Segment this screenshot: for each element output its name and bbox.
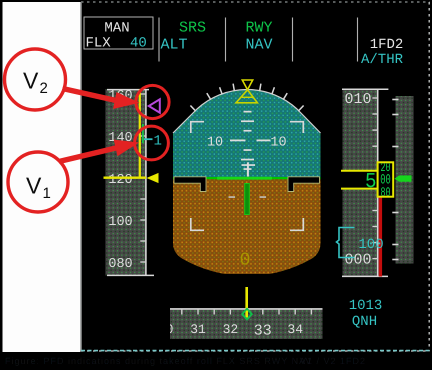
svg-text:31: 31 [190, 322, 206, 337]
svg-text:SRS: SRS [179, 20, 206, 37]
pitch ladder marks [241, 111, 254, 170]
svg-text:010: 010 [344, 91, 371, 108]
FD pitch bar [217, 177, 272, 180]
speed trend yellow line [139, 90, 141, 178]
FMA column1 box [84, 17, 153, 49]
FMA separator 3 [292, 18, 294, 62]
yellow heading lubber line [245, 287, 248, 318]
svg-text:Figure: PFD indications during: Figure: PFD indications during takeoff r… [5, 356, 312, 366]
FMA separator 1 [158, 18, 160, 62]
ball top outline arc [173, 90, 321, 133]
svg-text:MAN: MAN [104, 21, 129, 37]
white document area [3, 2, 81, 352]
V1 red arrow [59, 148, 118, 162]
V1 annotation circle [8, 152, 68, 212]
VS ticks [392, 100, 398, 260]
PFD black screen area [81, 2, 431, 352]
drum digits [380, 160, 391, 200]
svg-text:34: 34 [287, 322, 303, 337]
fixed yellow bank index triangle [242, 80, 252, 90]
speed tape vertical line [145, 89, 147, 276]
white cross above horizon [247, 162, 249, 176]
svg-text:120: 120 [108, 173, 132, 188]
svg-text:1: 1 [43, 185, 51, 202]
5 deg down pitch dashes [229, 196, 236, 198]
altitude tape vertical line [377, 89, 379, 277]
altitude drum box [378, 162, 394, 196]
red ground ribbon [379, 197, 382, 277]
dashed selection border around PFD [81, 1, 430, 3]
svg-text:000: 000 [344, 251, 371, 268]
FMA separator 4 [357, 18, 359, 62]
svg-text:080: 080 [108, 257, 132, 272]
svg-text:A/THR: A/THR [361, 52, 404, 68]
lower left attitude bracket [191, 218, 204, 230]
bank ticks [190, 84, 303, 112]
altitude tape bottom cap [342, 275, 388, 277]
upper left attitude bracket [191, 122, 204, 133]
green horizon line [173, 177, 321, 179]
svg-text:1FD2: 1FD2 [370, 37, 404, 53]
V2 red arrow [63, 89, 117, 101]
svg-text:ALT: ALT [161, 37, 188, 54]
FMA separator 2 [225, 18, 227, 62]
speed tape background [106, 89, 147, 276]
svg-text:5: 5 [365, 171, 377, 194]
altitude ticks [372, 98, 377, 259]
V1 cyan tick [144, 138, 153, 140]
svg-text:1: 1 [154, 134, 162, 150]
cyan tinted bottom marquee line [81, 350, 430, 352]
VS green needle [395, 175, 412, 181]
speed reference yellow line [104, 176, 147, 178]
heading ticks [182, 309, 312, 315]
altitude window yellow lines [341, 170, 378, 172]
speed tape ticks [140, 94, 146, 262]
svg-text:NAV: NAV [245, 37, 272, 54]
svg-text:V: V [26, 173, 42, 199]
svg-text:100: 100 [358, 237, 383, 253]
speed reference yellow pointer [147, 173, 159, 183]
attitude ball sky [173, 85, 321, 274]
svg-text:QNH: QNH [352, 314, 377, 330]
speed tape bottom cap [107, 274, 154, 276]
pitch 10 deg line [230, 140, 271, 142]
red highlight circle around V1 mark [135, 126, 169, 160]
svg-text:RWY: RWY [245, 20, 272, 37]
svg-text:100: 100 [108, 215, 132, 230]
red highlight circle around V2 triangle [136, 85, 169, 118]
altitude tape top cap [342, 88, 388, 90]
svg-text:2: 2 [40, 80, 48, 97]
bank pointer triangle [236, 90, 257, 103]
V2 annotation circle [5, 49, 66, 110]
vertical speed scale [396, 96, 414, 264]
green segment on speed tape [142, 124, 144, 143]
svg-text:V1 / V2 1FD2: V1 / V2 1FD2 [300, 356, 366, 366]
heading tape top line [170, 308, 323, 310]
FD yaw bar [245, 184, 250, 215]
heading tape background [170, 309, 323, 340]
svg-text:32: 32 [223, 322, 239, 337]
right wing symbol [288, 177, 320, 192]
svg-text:FLX: FLX [86, 36, 112, 52]
svg-text:10: 10 [270, 135, 286, 150]
green track diamond [242, 309, 252, 320]
gray left edge of PFD image [80, 2, 82, 351]
svg-text:0: 0 [240, 251, 251, 271]
svg-text:40: 40 [130, 36, 147, 52]
upper right attitude bracket [290, 122, 303, 133]
svg-text:V: V [23, 68, 39, 94]
lower right attitude bracket [290, 218, 303, 230]
altitude tape background [343, 89, 378, 277]
V2 magenta triangle [149, 99, 160, 112]
cyan brace [337, 228, 355, 258]
altitude window black band [341, 172, 378, 189]
left wing symbol [174, 177, 206, 192]
svg-text:10: 10 [207, 135, 223, 150]
svg-text:1013: 1013 [349, 298, 383, 314]
svg-text:33: 33 [254, 322, 272, 339]
heading labels [158, 322, 303, 339]
speed tape top cap [107, 89, 149, 91]
